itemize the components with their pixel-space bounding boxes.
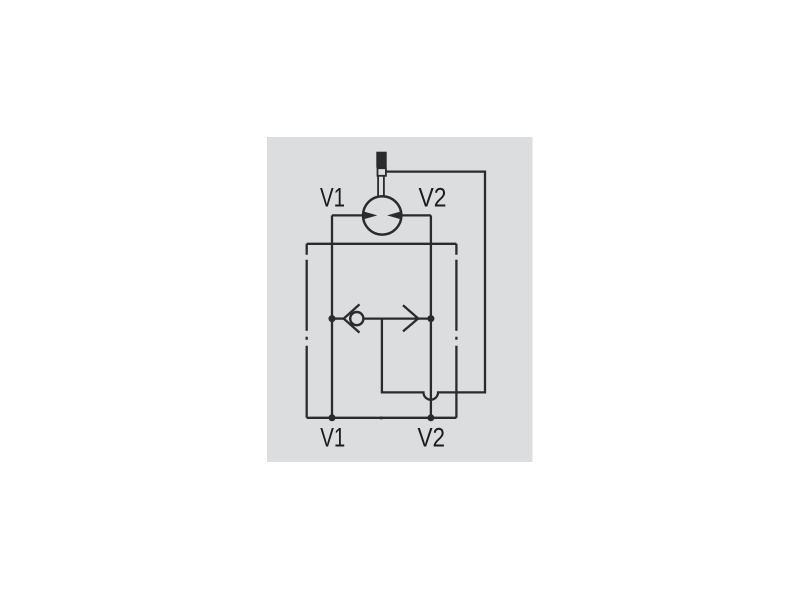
- svg-text:V1: V1: [320, 422, 345, 452]
- svg-text:V2: V2: [418, 422, 446, 452]
- svg-text:V1: V1: [320, 183, 345, 213]
- svg-text:V2: V2: [419, 183, 447, 213]
